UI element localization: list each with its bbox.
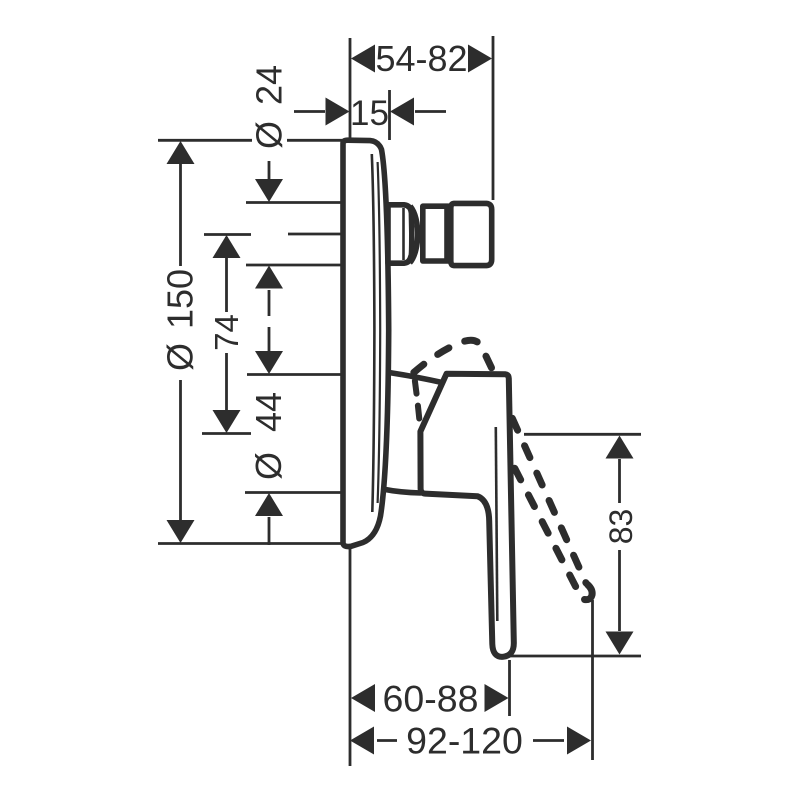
arrowhead 92-120 right bbox=[567, 727, 591, 755]
cartridge sleeve bottom curve bbox=[383, 489, 422, 493]
dimension 83 stem bbox=[618, 459, 621, 631]
arrowhead 74 down bbox=[213, 410, 241, 433]
lever handle outline bbox=[420, 374, 513, 657]
extension line: pivot right / 83 top (y434.3) bbox=[524, 433, 641, 436]
arrowhead O24 down (above line) bbox=[255, 179, 283, 202]
svg-text:54-82: 54-82 bbox=[375, 38, 467, 79]
arrowhead 54-82 left bbox=[351, 45, 375, 73]
extension line: bottom vertical left (x350) bbox=[349, 548, 352, 766]
dimension 15 leaders bbox=[294, 110, 446, 113]
extension line: plate top (y140) bbox=[158, 139, 342, 142]
svg-text:60-88: 60-88 bbox=[383, 678, 479, 720]
arrowhead 83 down bbox=[606, 632, 634, 655]
svg-text:92-120: 92-120 bbox=[406, 720, 523, 762]
spout middle cylinder right thin line bbox=[444, 208, 447, 259]
arrowhead 74 up bbox=[213, 235, 241, 258]
spout middle cylinder bbox=[423, 206, 449, 261]
arrowhead 83 up bbox=[606, 436, 634, 459]
arrowhead O150 up bbox=[167, 141, 195, 164]
svg-text:Ø 150: Ø 150 bbox=[160, 269, 201, 371]
wall plate second contour line bbox=[378, 162, 381, 503]
spout head cylinder bbox=[451, 203, 492, 265]
spout sleeve inner line bbox=[402, 208, 405, 260]
arrowhead 60-88 left bbox=[351, 684, 375, 712]
dashed lever rear edge (line B) bbox=[514, 467, 580, 596]
extension line: pivot left (y433.5) bbox=[202, 432, 251, 435]
extension line: handle hub top (y374.5) bbox=[247, 373, 342, 376]
arrowhead 60-88 right bbox=[485, 684, 509, 712]
spout cone lower arc bbox=[410, 228, 418, 263]
dashed lever back edge bbox=[415, 378, 421, 426]
extension line: top vertical left (x350) bbox=[349, 38, 352, 140]
spout cone upper arc bbox=[410, 206, 418, 239]
extension line: spout bottom (y265) bbox=[246, 264, 342, 267]
arrowhead 54-82 right bbox=[468, 45, 492, 73]
arrowhead O44 up (below line) bbox=[255, 493, 283, 516]
svg-text:15: 15 bbox=[350, 94, 389, 133]
dimension O24 stems bbox=[268, 161, 271, 316]
svg-text:74: 74 bbox=[208, 314, 245, 351]
extension line: 15 right vertical (x389.5) bbox=[388, 90, 391, 140]
dashed lever tip hook bbox=[585, 585, 593, 600]
svg-text:83: 83 bbox=[603, 509, 639, 545]
extension line: handle hub bottom (y492.5) bbox=[245, 491, 342, 494]
dimension 74 stem bbox=[225, 237, 228, 410]
lever blade inner thin line bbox=[496, 427, 498, 621]
cartridge sleeve top curve bbox=[389, 373, 442, 383]
dashed lever top arc bbox=[412, 340, 494, 374]
extension line: spout centerline (y234.5) bbox=[204, 233, 342, 236]
extension line: bottom vertical lever tip (x509.5) bbox=[508, 660, 511, 716]
dimension O150 stem bbox=[179, 163, 182, 520]
arrowhead O44 down (above line) bbox=[255, 351, 283, 374]
arrowhead 92-120 left bbox=[350, 727, 374, 755]
dashed lever front edge (line A) bbox=[512, 417, 587, 584]
extension line: plate bottom (y543.5) bbox=[158, 542, 348, 545]
arrowhead O150 down bbox=[167, 520, 195, 543]
extension line: lever tip / 83 bottom (y656) bbox=[508, 655, 641, 658]
extension line: spout top (y202.5) bbox=[246, 201, 342, 204]
arrowhead O24 up (below line) bbox=[255, 266, 283, 289]
extension line: bottom vertical dashed-lever tip (x592.5) bbox=[591, 600, 594, 760]
spout sleeve at plate bbox=[388, 205, 412, 263]
svg-text:Ø 24: Ø 24 bbox=[249, 65, 290, 149]
svg-text:Ø 44: Ø 44 bbox=[248, 392, 289, 480]
extension line: top vertical right (x493) bbox=[492, 36, 495, 200]
wall plate (escutcheon) outline bbox=[343, 140, 389, 546]
wall plate inner contour line bbox=[372, 154, 375, 512]
arrowhead 15 pointing left bbox=[390, 98, 414, 126]
dimension 92-120 leaders bbox=[377, 739, 564, 742]
dimension O44 stems bbox=[268, 327, 271, 545]
arrowhead 15 pointing right bbox=[326, 98, 350, 126]
